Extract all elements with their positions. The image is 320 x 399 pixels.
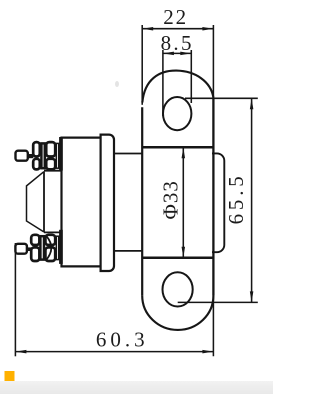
cylinder top line bbox=[142, 146, 213, 149]
neck top edge bbox=[114, 153, 142, 155]
svg-text:22: 22 bbox=[163, 5, 188, 29]
bottom nut1 bbox=[31, 235, 39, 245]
top nut2 bbox=[46, 142, 55, 156]
dim 22 / 60.3 ext line right bbox=[212, 25, 214, 356]
dim 65.5 ext line bottom bbox=[178, 301, 258, 303]
dim phi33 line bbox=[182, 147, 184, 258]
knob front face bbox=[43, 172, 45, 233]
dim 60.3 ext line left bbox=[14, 243, 16, 356]
dim 8.5 ext lines bbox=[162, 50, 164, 116]
top terminal stud bbox=[16, 151, 28, 161]
knob trapezoid bbox=[27, 172, 45, 232]
cylinder bottom line bbox=[142, 256, 213, 259]
top nut1 bbox=[33, 142, 40, 156]
bottom washer2 bbox=[56, 236, 58, 259]
faint speck bbox=[115, 81, 119, 87]
svg-text:65.5: 65.5 bbox=[224, 172, 248, 224]
bottom cone washer bbox=[47, 236, 52, 259]
dim 22 ext line left bbox=[141, 25, 143, 105]
tab right of plate bbox=[212, 153, 224, 252]
bottom washer1 bbox=[40, 236, 44, 259]
bottom black strip bbox=[59, 230, 63, 264]
mounting plate top cap arc bbox=[142, 71, 213, 103]
yellow square artifact bbox=[5, 371, 15, 381]
dim 65.5 ext line top bbox=[185, 97, 258, 99]
body outline bbox=[62, 138, 101, 267]
dim 65.5 line bbox=[251, 98, 253, 302]
mounting plate left side bbox=[141, 107, 143, 295]
top washer2 bbox=[56, 143, 58, 168]
neck bottom edge bbox=[114, 250, 142, 252]
svg-text:Φ33: Φ33 bbox=[159, 180, 183, 219]
top terminal shaft bbox=[28, 154, 33, 158]
dim 22 line bbox=[142, 28, 213, 30]
bottom terminal shaft bbox=[28, 247, 33, 251]
dim 60.3 line bbox=[15, 351, 213, 353]
svg-text:60.3: 60.3 bbox=[96, 328, 149, 352]
bottom terminal stud bbox=[15, 244, 27, 254]
mounting plate bottom cap arc bbox=[142, 296, 213, 330]
bottom nut2 bbox=[45, 235, 55, 245]
top washer1 bbox=[41, 143, 44, 168]
bottom hole bbox=[163, 272, 193, 306]
dim 8.5 line bbox=[163, 52, 191, 54]
flange bbox=[101, 135, 114, 271]
top hole bbox=[163, 97, 191, 130]
svg-text:8.5: 8.5 bbox=[161, 31, 194, 55]
mounting plate right side bbox=[212, 98, 214, 296]
top black strip bbox=[59, 137, 63, 171]
knob base plate bbox=[44, 171, 62, 233]
